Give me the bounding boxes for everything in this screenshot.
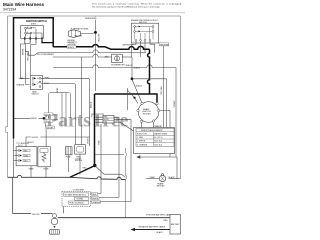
- legend wires out: [91, 194, 132, 202]
- svg-text:RED: RED: [92, 194, 97, 196]
- svg-text:WHITE: WHITE: [104, 119, 109, 121]
- svg-text:ORG: ORG: [24, 160, 29, 162]
- svg-text:3. ORANGE: 3. ORANGE: [137, 143, 148, 146]
- divider rule under title: [0, 12, 185, 14]
- brake inner connector: [40, 149, 48, 153]
- block wire diagonal to table: [114, 122, 134, 131]
- svg-text:FUNCTION: FUNCTION: [137, 133, 147, 135]
- svg-text:YELLOW: YELLOW: [99, 34, 101, 42]
- wire L2 hourmeter feed: [53, 54, 112, 57]
- svg-text:1. RED: 1. RED: [137, 137, 144, 139]
- svg-text:BLACK: BLACK: [136, 84, 143, 87]
- interlock module circle: [138, 102, 159, 123]
- svg-text:Main Wire Harness: Main Wire Harness: [3, 2, 45, 7]
- ground wire from blockout switch: [163, 46, 165, 128]
- blockout pin wire 1: [132, 41, 137, 57]
- svg-text:VIOLET: VIOLET: [87, 136, 89, 144]
- negative battery cable: [134, 229, 171, 231]
- svg-text:IGNITION SWITCH: IGNITION SWITCH: [26, 20, 47, 23]
- svg-text:2. WHITE: 2. WHITE: [137, 141, 146, 143]
- bottom bumpy harness line: [8, 175, 126, 179]
- wire plug to junction: [80, 32, 95, 33]
- PTO left stubs: [14, 151, 19, 161]
- svg-text:YELLOW: YELLOW: [27, 53, 29, 61]
- svg-text:B1/2, A-4: B1/2, A-4: [154, 140, 162, 143]
- positive battery cable: [58, 217, 170, 219]
- svg-text:PartsTree: PartsTree: [46, 110, 129, 132]
- svg-text:WHITE: WHITE: [92, 198, 99, 200]
- label BLACK on thick line: [67, 45, 76, 48]
- fuse holder: [65, 147, 72, 155]
- legend dashed box: [62, 192, 91, 207]
- legend row voltage regulator: [64, 193, 89, 196]
- svg-text:WHITE: WHITE: [31, 118, 38, 120]
- wire red vertical: [100, 124, 102, 194]
- module pins: [137, 102, 160, 122]
- svg-text:RED: RED: [98, 140, 100, 145]
- thick wire left descent to junction: [94, 94, 96, 165]
- svg-text:VIOLET: VIOLET: [27, 142, 35, 144]
- blockout switch terminals: [134, 26, 154, 42]
- svg-text:WIRE/PIN ASSIGNMENT: WIRE/PIN ASSIGNMENT: [141, 129, 163, 132]
- wire vertical from junction: [166, 79, 168, 128]
- svg-text:RED: RED: [164, 220, 169, 222]
- svg-text:BLACK: BLACK: [126, 64, 133, 67]
- blockout pin wire 2: [140, 41, 142, 57]
- svg-text:GRAY: GRAY: [29, 168, 35, 171]
- wire mid horizontal to outline: [95, 154, 124, 156]
- svg-text:BLACK: BLACK: [134, 66, 141, 69]
- wire junction vertical: [131, 57, 133, 78]
- svg-text:VIOLET: VIOLET: [45, 121, 53, 123]
- svg-text:MATING WIRE: MATING WIRE: [154, 132, 167, 135]
- hourmeter box: [112, 54, 123, 62]
- block wire orange down: [114, 120, 131, 202]
- junction dot main: [93, 164, 96, 167]
- thin diagonal from junction to outline: [95, 166, 126, 178]
- junction dot magneto: [94, 31, 97, 34]
- blockout switch internal links: [135, 27, 154, 40]
- svg-text:SWITCH: SWITCH: [32, 94, 40, 96]
- svg-text:B1/2, A-3: B1/2, A-3: [154, 143, 162, 146]
- key switch surround thick ground trace: [14, 18, 54, 139]
- svg-text:YELLOW/GREEN: YELLOW/GREEN: [37, 54, 54, 56]
- svg-text:NEGATIVE BATTERY CABLE: NEGATIVE BATTERY CABLE: [139, 225, 166, 228]
- label VIOLET fan3: [46, 126, 55, 129]
- junction fan dot: [43, 117, 46, 120]
- wire from key switch pin 2: [26, 40, 31, 84]
- wire pin table outer box: [134, 128, 175, 154]
- frame ground lug: [159, 175, 165, 181]
- svg-text:FUEL SOLENOID: FUEL SOLENOID: [70, 203, 85, 205]
- svg-text:VIOLET: VIOLET: [47, 127, 55, 129]
- svg-text:MODULE: MODULE: [75, 160, 83, 162]
- wire gray to ground: [146, 178, 159, 180]
- label GROUND right of switch: [159, 43, 169, 46]
- svg-text:ORANGE: ORANGE: [16, 83, 25, 86]
- svg-text:BLACK: BLACK: [169, 176, 176, 179]
- wire from key switch pin 3: [31, 40, 36, 75]
- seat switch pins: [32, 77, 34, 79]
- wire long horizontal L1 yellow/green run: [26, 50, 147, 56]
- connector block 3-row: [103, 116, 114, 124]
- hourmeter dial: [114, 56, 119, 61]
- key icon: [50, 230, 60, 235]
- label YELLOW bottom: [31, 213, 41, 216]
- PTO pins: [18, 150, 20, 162]
- svg-text:YELLOW: YELLOW: [161, 87, 163, 95]
- brake coil: [42, 152, 46, 162]
- svg-text:WHITE: WHITE: [22, 48, 24, 55]
- fan wire violet 1: [44, 115, 58, 118]
- seat switch wire blue down: [41, 84, 76, 145]
- seat switch box: [31, 76, 43, 90]
- key ground dot: [54, 226, 56, 228]
- junction dot upper right: [131, 77, 134, 80]
- alternator plug connector: [69, 30, 81, 38]
- svg-text:TO ENGINE: TO ENGINE: [73, 190, 85, 192]
- harness outline right edge: [180, 16, 182, 179]
- label VIOLET fan2: [44, 119, 53, 122]
- svg-text:VIOLET: VIOLET: [45, 114, 53, 116]
- svg-text:the terminals going to the ECU: the terminals going to the ECU/Blockout …: [92, 6, 160, 9]
- svg-text:BLACK: BLACK: [90, 101, 93, 108]
- legend row digital: [75, 197, 89, 200]
- bottom left frame vertical: [13, 177, 53, 213]
- wire PTO bottom: [30, 166, 32, 178]
- wire violet vertical right: [175, 68, 177, 158]
- thick wire right descent: [95, 49, 158, 102]
- svg-text:RED: RED: [105, 57, 110, 59]
- wire hourmeter to junction: [122, 56, 132, 58]
- fuse/relay bottom wires: [69, 154, 80, 174]
- svg-text:RED: RED: [83, 168, 88, 170]
- legend leader tick: [63, 207, 65, 214]
- key switch micro pin labels: [24, 27, 36, 44]
- key switch bottom pin posts: [24, 37, 42, 41]
- main thick black harness wire horizontal: [53, 45, 149, 50]
- svg-text:BLACK: BLACK: [157, 231, 164, 234]
- svg-text:VIOLET: VIOLET: [174, 100, 176, 108]
- wire L3 long horizontal: [53, 65, 176, 68]
- blockout pin wire 4: [150, 41, 155, 52]
- svg-text:B+ (12 V): B+ (12 V): [154, 137, 162, 139]
- console channel verticals: [62, 93, 66, 127]
- outline lower right vertical with notches: [126, 148, 127, 218]
- svg-text:MODULE: MODULE: [143, 113, 152, 115]
- fan wire violet 2: [44, 118, 58, 120]
- wire from module right pin: [160, 111, 170, 158]
- wire pin table: [136, 128, 174, 146]
- svg-text:YELLOW: YELLOW: [74, 35, 82, 37]
- svg-text:3472194: 3472194: [3, 8, 16, 12]
- wire violet riser from PTO top: [26, 137, 90, 147]
- label WHITE legend: [92, 197, 100, 200]
- arrow connector wire: [136, 155, 140, 158]
- block stubs to thick wire: [95, 117, 103, 122]
- wire junction to right verticals: [132, 78, 167, 80]
- harness outline top edge: [8, 15, 181, 17]
- key switch pin4 thick U link: [42, 40, 53, 42]
- seat switch wire gray to violet riser: [41, 78, 90, 146]
- svg-text:GRAY: GRAY: [19, 77, 25, 80]
- seat switch contact arrows: [34, 77, 36, 79]
- svg-text:HOURMETER: HOURMETER: [111, 65, 125, 67]
- key switch inner box: [21, 26, 44, 39]
- svg-text:GRAY: GRAY: [56, 87, 59, 93]
- outline right turn to ground: [169, 178, 181, 180]
- block wire white down: [114, 117, 119, 197]
- key switch contact arrows: [31, 27, 33, 29]
- PTO switch box: [16, 147, 37, 166]
- svg-text:VOLTAGE REGULATOR (-): VOLTAGE REGULATOR (-): [64, 194, 86, 197]
- wire thick tail down: [13, 139, 15, 178]
- label WHITE/RED top: [85, 17, 99, 20]
- label VIOLET on riser: [31, 136, 41, 139]
- svg-text:BLUE: BLUE: [44, 169, 50, 171]
- blockout pin wire 3: [144, 41, 146, 52]
- ignition/blockout switch box: [131, 23, 158, 43]
- key switch terminal circles: [25, 27, 27, 34]
- svg-text:BATTERY: BATTERY: [171, 223, 180, 226]
- svg-text:DIGITAL: DIGITAL: [77, 198, 84, 201]
- svg-text:ORANGE: ORANGE: [92, 201, 101, 204]
- thick diagonal to bottom left run: [70, 166, 95, 178]
- small junction dot near module: [133, 97, 135, 99]
- svg-text:GROUND: GROUND: [157, 186, 166, 188]
- label RED legend: [92, 193, 98, 196]
- wire junction diagonal to module: [132, 80, 142, 104]
- blockout contact arrows: [139, 26, 141, 28]
- svg-text:GRAY: GRAY: [44, 76, 50, 79]
- wire white feed: [14, 117, 43, 119]
- svg-text:POSITIVE BATTERY CABLE: POSITIVE BATTERY CABLE: [146, 213, 173, 216]
- time delay module: [75, 145, 86, 154]
- PTO pin label boxes: [23, 149, 30, 162]
- legend row fuel solenoid: [69, 201, 89, 204]
- wire brake bottom: [45, 167, 47, 178]
- label VIOLET fan1: [44, 113, 53, 116]
- module bottom pin wires: [142, 122, 154, 127]
- brake switch narrow box: [38, 147, 50, 167]
- label ORANGE legend: [92, 201, 101, 204]
- svg-text:ALTERNATOR WIRE: ALTERNATOR WIRE: [71, 27, 90, 30]
- key switch internal links: [26, 28, 43, 37]
- fan wire violet 3 down to switch: [44, 118, 46, 146]
- battery box: [170, 215, 181, 235]
- svg-text:VIOLET: VIOLET: [32, 137, 40, 139]
- svg-text:YELLOW: YELLOW: [32, 214, 40, 216]
- small junction branch wires: [127, 88, 138, 110]
- key ground stack big circle: [51, 218, 58, 225]
- negative cable arrowhead: [131, 228, 136, 231]
- label WHITE: [30, 117, 39, 120]
- svg-text:BLACK: BLACK: [68, 46, 75, 49]
- console box outline: [49, 93, 71, 119]
- svg-text:WHITE/RED: WHITE/RED: [123, 45, 135, 47]
- riser to time delay module: [81, 57, 83, 145]
- wire white/red vertical: [95, 16, 97, 91]
- svg-text:This switch uses a “shorting”: This switch uses a “shorting” connector.…: [92, 2, 182, 5]
- svg-text:GROUND: GROUND: [160, 44, 169, 46]
- wire from key switch pin 1 down-left: [20, 40, 29, 78]
- svg-text:WHITE/RED: WHITE/RED: [85, 18, 97, 20]
- harness outline left edge: [6, 16, 8, 177]
- key ground stack small circle: [53, 214, 57, 218]
